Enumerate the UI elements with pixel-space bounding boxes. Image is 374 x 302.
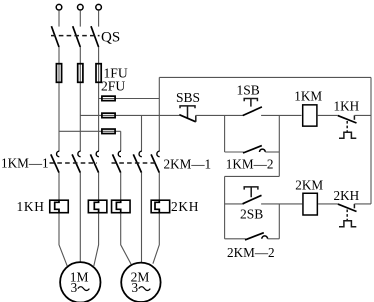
supply terminal L1 — [56, 4, 62, 10]
wire phase B contact to motor1 — [79, 173, 81, 263]
branch vertical upper right (to 1KM coil node) — [278, 115, 280, 176]
svg-text:2KH: 2KH — [171, 199, 199, 214]
svg-text:SBS: SBS — [176, 90, 200, 105]
wire motor1 lead left — [59, 214, 67, 267]
branch vertical lower left (to 2SB and 2KM-2) — [224, 176, 226, 238]
svg-text:2KM—1: 2KM—1 — [164, 156, 212, 171]
thermal heater 2KH element b — [151, 200, 170, 214]
stop button SBS — [179, 106, 196, 122]
wire L1 drop to switch — [58, 10, 60, 26]
wire tap line C (phase A to branch) — [59, 130, 121, 132]
wire motor2 phase 1 drop — [120, 131, 122, 151]
wire SBS to 1SB — [196, 114, 244, 116]
wire phase C below switch — [98, 47, 100, 151]
wire motor2 p2 contact to motor2 — [141, 173, 143, 263]
svg-text:1KH: 1KH — [17, 199, 45, 214]
svg-text:1SB: 1SB — [237, 83, 260, 98]
wire L3 drop to switch — [98, 10, 100, 26]
QS linkage dashed line — [51, 35, 100, 37]
wire motor2 p3 contact to heater — [158, 173, 160, 202]
switch QS pole 2 blade — [73, 26, 81, 47]
coil 1KM — [303, 105, 317, 126]
label 1KM-2 — [226, 156, 274, 171]
svg-text:3: 3 — [132, 280, 139, 295]
label 2FU — [101, 78, 125, 93]
svg-text:2KM: 2KM — [295, 178, 323, 193]
contactor contact 1KM-1 pole 1 — [51, 151, 60, 172]
wire phase C contact to heater — [98, 173, 100, 202]
wire L2 drop to switch — [79, 10, 81, 26]
thermal NC contact 2KH — [338, 204, 371, 227]
wire tap line B (phase B to SBS) — [80, 114, 179, 116]
label 2KH (control) — [334, 188, 360, 203]
holding contact 2KM-2 — [225, 204, 280, 240]
branch vertical upper left (1SB bypass) — [224, 115, 226, 152]
wire coil 2KM to 2KH contact — [318, 203, 338, 205]
fuse 1FU pole 1 — [56, 64, 61, 83]
svg-text:1KM: 1KM — [294, 89, 322, 104]
start button 1SB — [243, 99, 262, 116]
wire motor1 lead right — [94, 214, 99, 266]
contactor contact 1KM-1 pole 2 — [72, 151, 81, 172]
wire second branch row — [225, 203, 245, 205]
control right rail — [370, 77, 372, 203]
label SBS — [176, 90, 200, 105]
wire phase A contact to heater — [58, 173, 60, 202]
switch QS pole 1 blade — [51, 26, 59, 47]
label 1KM — [294, 89, 322, 104]
svg-text:2SB: 2SB — [240, 207, 263, 222]
motor 1M — [60, 262, 100, 302]
thermal NC contact 1KH — [338, 115, 371, 138]
fuse 2FU pole B — [102, 113, 115, 118]
wire 2SB to coil 2KM — [261, 203, 302, 205]
fuse 2FU pole A — [102, 96, 115, 101]
svg-text:2KH: 2KH — [334, 188, 360, 203]
start button 2SB — [243, 187, 262, 204]
wire phase A below switch — [58, 47, 60, 151]
wire motor2 p1 contact to heater — [120, 173, 122, 202]
label 2KM — [295, 178, 323, 193]
holding contact 1KM-2 — [225, 146, 280, 153]
thermal heater 1KH element a — [50, 200, 69, 214]
wire motor2 phase 2 drop — [141, 115, 143, 151]
label 1KH (control) — [334, 98, 360, 113]
2KM-1 linkage dashed line — [112, 162, 159, 164]
label 1KH (power) — [17, 199, 45, 214]
control top rail — [159, 76, 371, 78]
contactor contact 1KM-1 pole 3 — [90, 151, 99, 172]
svg-text:3: 3 — [71, 280, 78, 295]
svg-text:1KM—2: 1KM—2 — [226, 156, 274, 171]
supply terminal L2 — [78, 4, 84, 10]
svg-text:QS: QS — [101, 30, 120, 46]
fuse 1FU pole 3 — [96, 64, 101, 83]
label 2KM-1 — [164, 156, 212, 171]
svg-text:1KH: 1KH — [334, 98, 360, 113]
label 1SB — [237, 83, 260, 98]
wire 1SB to coil 1KM — [261, 114, 301, 116]
label 2KM-2 — [227, 245, 275, 260]
coil 2KM — [303, 193, 317, 215]
contactor contact 2KM-1 pole 3 — [151, 151, 160, 172]
wire tap line A (phase C to control rail) — [99, 98, 160, 100]
wire motor2 phase 3 / control left rail — [158, 77, 160, 151]
wire motor2 lead right — [153, 214, 159, 264]
sequence feed rung — [225, 175, 280, 177]
fuse 2FU pole C — [102, 129, 115, 134]
label 2SB — [240, 207, 263, 222]
wire coil 1KM to 1KH contact — [318, 114, 338, 116]
svg-text:1KM—1: 1KM—1 — [1, 156, 49, 171]
supply terminal L3 — [96, 4, 102, 10]
thermal heater 2KH element a — [112, 200, 131, 214]
label QS — [101, 30, 120, 46]
svg-text:2KM—2: 2KM—2 — [227, 245, 275, 260]
switch QS pole 3 blade — [91, 26, 99, 47]
motor 2M — [121, 263, 160, 302]
thermal heater 1KH element b — [88, 200, 107, 214]
contactor contact 2KM-1 pole 2 — [133, 151, 142, 172]
wire motor2 lead left — [121, 214, 132, 265]
contactor contact 2KM-1 pole 1 — [113, 151, 122, 172]
label 2KH (power) — [171, 199, 199, 214]
wire phase B below switch — [79, 47, 81, 151]
fuse 1FU pole 2 — [78, 64, 83, 83]
label 1KM-1 — [1, 156, 49, 171]
svg-text:2FU: 2FU — [101, 78, 125, 93]
1KM-1 linkage dashed line — [50, 162, 98, 164]
label 1FU — [104, 65, 128, 80]
